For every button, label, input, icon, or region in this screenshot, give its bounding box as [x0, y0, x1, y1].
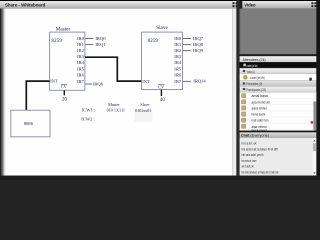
svg-text:CV: CV [61, 84, 67, 89]
chat header [240, 131, 317, 133]
label ICW1 [82, 107, 96, 112]
participant row 2 [242, 100, 246, 104]
pin INT (master) [50, 79, 58, 84]
right: video title bar [242, 1, 316, 9]
whiteboard canvas [6, 9, 233, 176]
top black line [0, 0, 320, 1]
pin CV (slave) [158, 84, 164, 89]
value label 20 [62, 98, 68, 103]
svg-text:Share - Whiteboard: Share - Whiteboard [5, 2, 46, 7]
pin labels IR0-IR7 (slave) [174, 36, 182, 84]
svg-text:IR4: IR4 [77, 60, 85, 65]
svg-text:am h.adl: ok: am h.adl: ok [242, 165, 254, 169]
svg-text:IRQ1: IRQ1 [95, 42, 106, 47]
svg-text:8259: 8259 [51, 38, 62, 44]
svg-text:IRQ7: IRQ7 [193, 36, 204, 41]
svg-text:a.adel (or Me): a.adel (or Me) [250, 76, 265, 80]
svg-text:hm ahmd ali: la takun 40 lh di: hm ahmd ali: la takun 40 lh diff [242, 147, 278, 151]
svg-text:Participants (23): Participants (23) [246, 88, 266, 92]
node IRQ0 [95, 36, 106, 41]
svg-text:010 1X111: 010 1X111 [107, 107, 125, 112]
table header Master [108, 102, 120, 107]
chat area [240, 138, 317, 176]
svg-text:IR2: IR2 [174, 48, 182, 53]
svg-text:sara khlel: sara khlel [252, 106, 267, 110]
svg-text:8259: 8259 [148, 38, 159, 44]
attendees header [240, 54, 317, 56]
left window title bar [0, 1, 240, 9]
svg-text:ICW1 :: ICW1 : [82, 107, 96, 112]
participants scrollbar [313, 92, 316, 131]
svg-text:Attendees (24): Attendees (24) [243, 58, 266, 62]
svg-text:IRQ8: IRQ8 [193, 42, 204, 47]
svg-text:mai adel hsn: mai adel hsn [252, 119, 269, 123]
svg-text:0101xx01: 0101xx01 [135, 108, 151, 113]
participants header [240, 86, 317, 92]
pin labels IR0-IR7 (master) [77, 36, 85, 84]
node IRQ14 [193, 79, 206, 84]
vertical divider between panels [236, 0, 239, 180]
svg-text:Hosts (1): Hosts (1) [247, 70, 255, 74]
participant row 1 [242, 94, 246, 98]
node IRQ8 [193, 42, 204, 47]
svg-text:IR7: IR7 [174, 79, 182, 84]
svg-text:Video: Video [244, 2, 256, 7]
svg-text:8086: 8086 [24, 121, 34, 126]
svg-text:IRQ0: IRQ0 [95, 36, 106, 41]
title bar left expand icon [233, 2, 238, 7]
participant row 3 [242, 106, 246, 110]
pin stub IR2 (slave) [183, 50, 191, 52]
svg-text:40: 40 [160, 98, 166, 103]
IC U2 8259 slave [142, 32, 183, 89]
svg-text:IR7: IR7 [77, 79, 85, 84]
canvas scrollbar [232, 9, 236, 176]
IC U1 8259 master [50, 32, 85, 90]
pin stub IR7 (master) [85, 83, 92, 85]
right border [316, 0, 320, 180]
pin stub IR0 (master) [85, 38, 93, 40]
pin stub IR7 (slave) [183, 80, 191, 82]
participants list [240, 92, 317, 130]
svg-text:IR2: IR2 [77, 48, 85, 53]
svg-text:20: 20 [62, 98, 68, 103]
svg-text:hm mna s: tmm: hm mna s: tmm [242, 159, 257, 163]
host row [240, 74, 317, 81]
presenters header [240, 81, 317, 86]
pin INT (slave) [142, 79, 150, 84]
participant row 4 [242, 112, 246, 116]
svg-text:INT: INT [142, 79, 150, 84]
svg-text:hm a.ml: ok: hm a.ml: ok [242, 142, 257, 146]
svg-text:Chat (Everyone): Chat (Everyone) [241, 133, 270, 137]
svg-text:IR6: IR6 [77, 72, 85, 77]
label ICW2 [81, 117, 95, 122]
pin stub IR1 (master) [85, 44, 93, 46]
participant row 6 [242, 124, 246, 128]
wire CV tick (master) [63, 90, 65, 95]
svg-text:IR5: IR5 [174, 66, 182, 71]
node IRQ9 [193, 48, 204, 53]
wire master IR3 to slave INT (cascade) [85, 57, 141, 81]
svg-text:IR5: IR5 [77, 66, 85, 71]
value ICW1 master [107, 107, 125, 112]
svg-text:aya mohd ali: aya mohd ali [252, 100, 270, 104]
svg-text:Slave: Slave [140, 102, 149, 107]
expand icon [311, 2, 316, 7]
svg-text:IR0: IR0 [174, 36, 182, 41]
svg-text:ICW2 :: ICW2 : [81, 117, 95, 122]
svg-text:amal hasn: amal hasn [252, 94, 269, 98]
pin stub IR1 (slave) [183, 44, 191, 46]
value label 40 [160, 98, 166, 103]
participant row 5 [242, 118, 246, 122]
pin stub IR0 (slave) [183, 38, 191, 40]
label Slave [156, 25, 168, 31]
svg-text:Slave: Slave [156, 25, 168, 31]
red dot [311, 121, 314, 124]
bottom bar [0, 176, 320, 180]
svg-text:INT: INT [50, 79, 58, 84]
value ICW1 slave (edit box) [135, 108, 153, 122]
table header Slave [140, 102, 149, 107]
svg-text:hm mhd ahmed: al masa 0101 lai: hm mhd ahmed: al masa 0101 laih tab [242, 170, 279, 174]
svg-text:CV: CV [158, 84, 164, 89]
svg-text:Presenters (0): Presenters (0) [246, 82, 262, 86]
svg-text:IR3: IR3 [77, 54, 85, 59]
svg-text:IR1: IR1 [77, 42, 85, 47]
svg-text:IR3: IR3 [174, 54, 182, 59]
left window edge gradient [0, 9, 6, 180]
svg-text:Master: Master [56, 26, 71, 32]
svg-text:hend samr: hend samr [252, 113, 267, 117]
pin CV (master) [61, 84, 67, 89]
node IRQ7 [193, 36, 204, 41]
svg-text:Master: Master [108, 102, 120, 107]
svg-text:IRQ9: IRQ9 [193, 48, 204, 53]
svg-text:IR6: IR6 [174, 72, 182, 77]
hosts header [240, 68, 317, 74]
svg-text:hm sara adel: yes tb: hm sara adel: yes tb [242, 153, 264, 157]
node IRQ1 [95, 42, 106, 47]
svg-text:IRQ6: IRQ6 [93, 81, 104, 86]
participant row 7 (clipped) [242, 130, 246, 132]
svg-text:a.adel (or Me): a.adel (or Me) [247, 64, 258, 68]
svg-text:IRQ14: IRQ14 [193, 79, 206, 84]
svg-text:IR0: IR0 [77, 36, 85, 41]
node IRQ6 [93, 81, 104, 86]
video area [240, 9, 317, 55]
svg-text:IR1: IR1 [174, 42, 182, 47]
IC U3 8086 CPU [11, 110, 50, 137]
label Master [56, 26, 71, 32]
chat scrollbar [313, 138, 317, 175]
svg-text:IR4: IR4 [174, 60, 182, 65]
wire CV tick (slave) [160, 90, 162, 96]
wire master INT to 8086 [26, 81, 49, 110]
active speaker row [240, 62, 317, 68]
